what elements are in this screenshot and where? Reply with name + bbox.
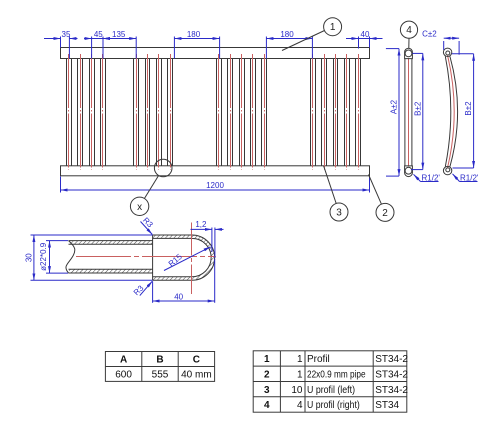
svg-text:1200: 1200 [206, 181, 224, 190]
svg-text:2: 2 [264, 370, 270, 381]
callout 2 [369, 175, 395, 222]
callout 3 [324, 166, 348, 221]
detail centerline vertical [191, 223, 193, 295]
pipe 6 [146, 54, 150, 170]
detail cap (U profil) hatched wall [153, 235, 215, 280]
svg-text:180: 180 [280, 30, 294, 39]
dim 40 detail [153, 259, 215, 303]
svg-text:4: 4 [297, 400, 303, 411]
svg-text:180: 180 [187, 30, 201, 39]
pipe 10 [228, 54, 233, 170]
svg-text:4: 4 [264, 400, 270, 411]
pipe 3 [90, 54, 95, 170]
label R1/2 curved [453, 173, 479, 182]
pipe 15 [322, 54, 327, 170]
svg-text:R1/2': R1/2' [460, 173, 479, 182]
svg-text:B±2: B±2 [413, 101, 422, 116]
detail pipe break line [66, 241, 75, 273]
callout 4 [400, 21, 417, 48]
svg-text:x: x [137, 202, 142, 213]
svg-text:4: 4 [406, 25, 412, 36]
bottom rail [61, 166, 370, 176]
straight pipe side view: body [405, 58, 412, 166]
svg-text:U profil (left): U profil (left) [307, 385, 355, 396]
parts table frame [253, 351, 407, 412]
svg-text:40: 40 [361, 30, 370, 39]
dim 1,2 [191, 220, 224, 258]
top rail [61, 48, 370, 59]
straight pipe top fitting [405, 48, 413, 58]
pipe 18 [356, 54, 361, 170]
dim 45 [84, 30, 111, 39]
pipe 8 [168, 54, 173, 170]
svg-text:10: 10 [291, 385, 303, 396]
svg-text:3: 3 [264, 385, 270, 396]
dim 40 [346, 30, 383, 39]
svg-text:ø22*0.9: ø22*0.9 [39, 242, 48, 271]
svg-text:Profil: Profil [307, 354, 330, 365]
svg-text:40 mm: 40 mm [181, 370, 212, 381]
label R1/2 straight [414, 173, 441, 182]
svg-text:U profil (right): U profil (right) [307, 400, 360, 411]
detail circle X on bottom rail [144, 159, 172, 198]
dim 180 right [266, 30, 312, 39]
pipe 11 [240, 54, 245, 170]
svg-text:ST34-2: ST34-2 [375, 370, 408, 381]
pipe 5 [134, 54, 139, 170]
curved pipe bottom fitting [443, 166, 451, 174]
pipe 4 [101, 54, 106, 170]
detail centerline horizontal [76, 256, 216, 258]
svg-text:2: 2 [382, 208, 388, 219]
parts table text [264, 354, 408, 411]
svg-text:1,2: 1,2 [195, 220, 207, 229]
curved pipe side view: body [445, 56, 457, 168]
svg-text:ST34-2: ST34-2 [375, 385, 408, 396]
svg-text:R1/2': R1/2' [422, 173, 441, 182]
pipe 1 [67, 54, 72, 170]
svg-text:600: 600 [115, 370, 132, 381]
dim 30 [25, 235, 153, 280]
pipe 7 [157, 54, 162, 170]
dim B±2 curved [452, 54, 474, 168]
svg-text:3: 3 [336, 208, 342, 219]
svg-text:C: C [193, 355, 200, 366]
dim 1200 [61, 177, 370, 193]
pipe 2 [78, 54, 83, 170]
table ABC frame [105, 352, 214, 382]
svg-text:1: 1 [297, 354, 303, 365]
svg-text:B±2: B±2 [464, 101, 473, 116]
extension lines top [61, 37, 370, 59]
dim diameter 22*0.9 [39, 241, 68, 274]
label R3 top [141, 216, 155, 235]
svg-text:A: A [120, 355, 127, 366]
svg-text:30: 30 [25, 253, 34, 262]
svg-text:135: 135 [112, 30, 126, 39]
pipe 16 [334, 54, 338, 170]
callout 1 [282, 18, 342, 51]
svg-text:C±2: C±2 [422, 30, 437, 39]
svg-text:ST34: ST34 [375, 400, 399, 411]
table ABC text [115, 355, 211, 381]
pipe 12 [251, 54, 256, 170]
svg-text:1: 1 [330, 22, 336, 33]
straight pipe bottom fitting [405, 166, 413, 177]
detail pipe wall bottom (hatched) [69, 269, 153, 273]
label R15 [164, 247, 211, 271]
pipe 17 [345, 54, 350, 170]
dim 35 [44, 30, 78, 39]
detail pipe wall top (hatched) [69, 241, 153, 245]
svg-text:A±2: A±2 [390, 99, 399, 114]
pipe 9 [217, 54, 222, 170]
svg-text:45: 45 [94, 30, 103, 39]
svg-text:ST34-2: ST34-2 [375, 354, 408, 365]
svg-text:555: 555 [152, 370, 169, 381]
svg-text:22x0.9 mm pipe: 22x0.9 mm pipe [307, 370, 366, 381]
dim 135 [103, 30, 136, 39]
svg-text:1: 1 [264, 354, 270, 365]
label R3 bottom [132, 281, 152, 297]
pipe 14 [311, 54, 316, 170]
curved pipe top fitting [443, 48, 451, 56]
svg-text:1: 1 [297, 370, 303, 381]
dim C±2 [422, 30, 459, 55]
dim 180 left [174, 30, 219, 39]
dim A±2 [386, 49, 399, 177]
svg-text:B: B [156, 355, 163, 366]
dim B±2 straight [411, 53, 423, 169]
pipe 13 [262, 54, 267, 170]
callout X [130, 197, 148, 215]
svg-text:35: 35 [62, 30, 71, 39]
svg-text:40: 40 [174, 292, 183, 301]
